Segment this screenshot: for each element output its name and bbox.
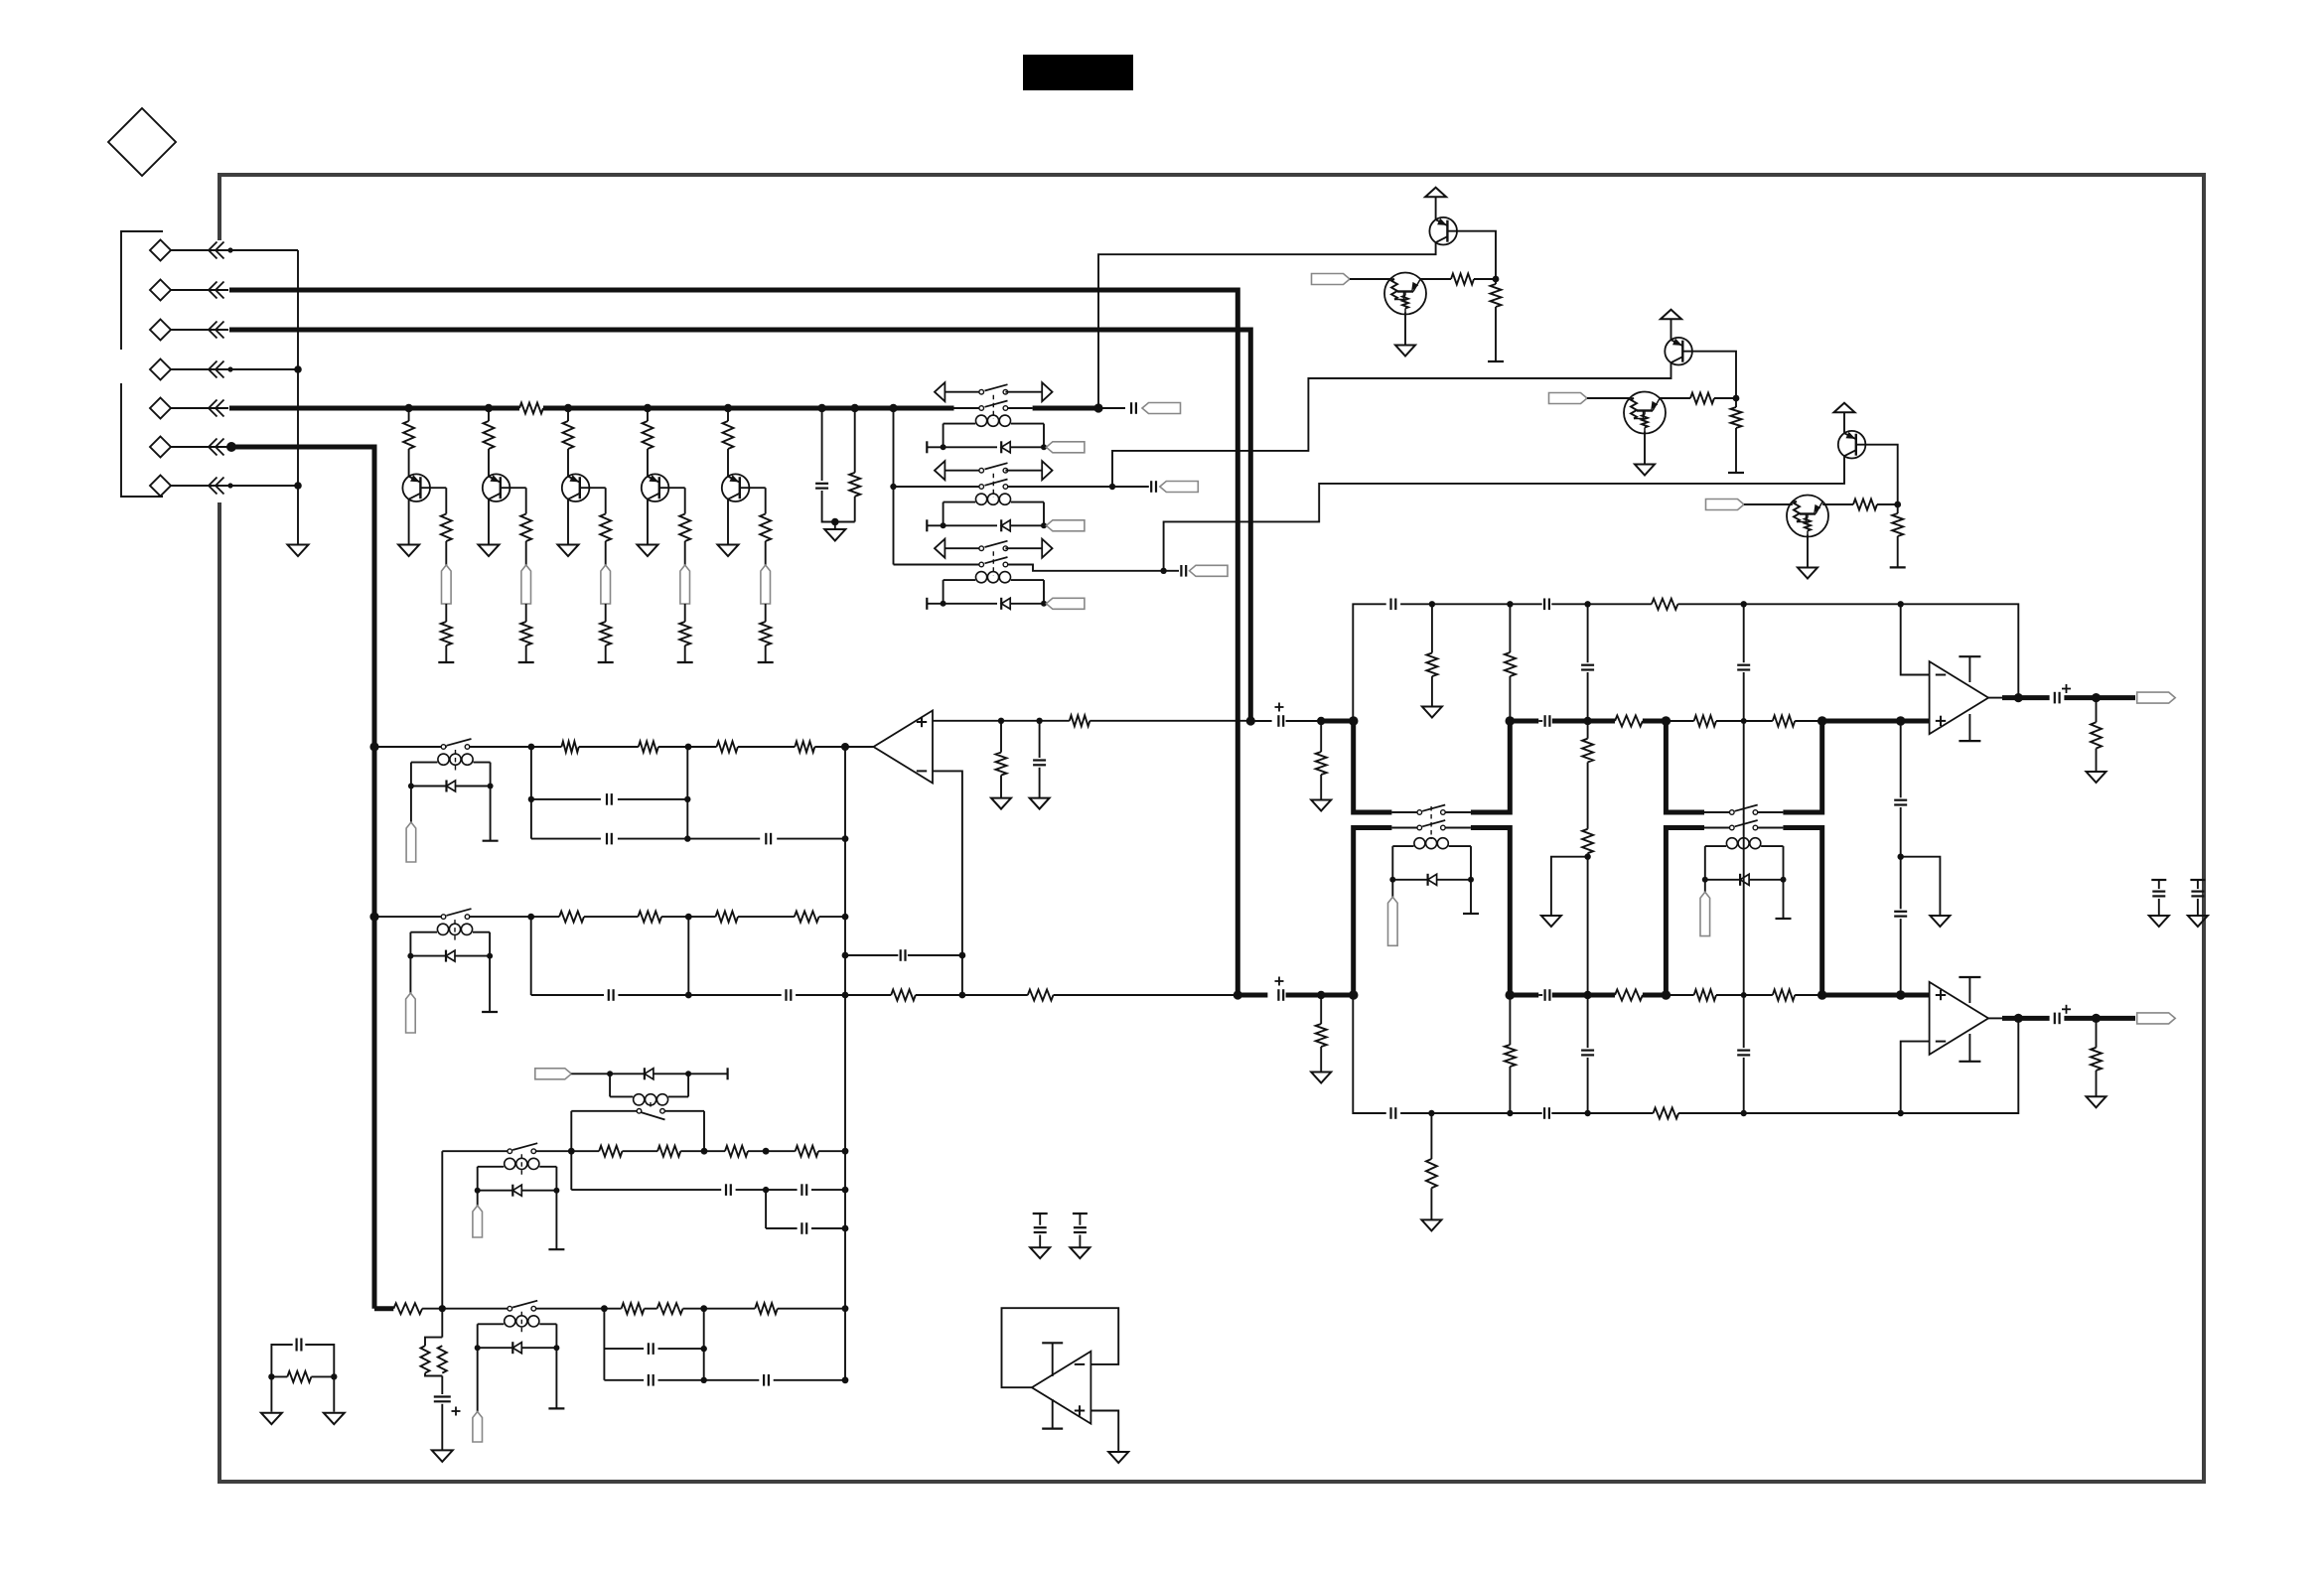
resistor R4c bbox=[679, 604, 690, 662]
wire QA base bbox=[1448, 231, 1496, 279]
wire rowL to opamp (thick) bbox=[1822, 990, 1930, 1000]
wire rowU' left corner bbox=[1353, 604, 1385, 721]
wire pin4 to node bbox=[229, 365, 302, 373]
resistor R-chain1-a bbox=[1582, 721, 1593, 763]
switch K4 lower pole bbox=[1417, 820, 1445, 830]
wire K5 ll stub bbox=[1704, 827, 1730, 829]
node bus cell2 bbox=[485, 404, 493, 412]
resistor R-U1p-in bbox=[1070, 715, 1090, 726]
diode D-B bbox=[407, 950, 493, 962]
wire Q1 emitter to ground bbox=[408, 500, 410, 545]
wire K5 ur stub bbox=[1758, 811, 1784, 813]
wire K4 lower-left (thick) bbox=[1354, 828, 1392, 996]
resistor RA1 bbox=[531, 742, 579, 753]
ground C-dm1 bbox=[1030, 1247, 1050, 1258]
wire rowL to bus2 node bbox=[1054, 994, 1238, 996]
wire DTB emitter gnd bbox=[1644, 432, 1646, 465]
connector bracket bbox=[121, 231, 163, 497]
wire row3 left bbox=[894, 564, 979, 566]
ground pin-common bbox=[288, 545, 309, 557]
resistor RA2 bbox=[579, 742, 658, 753]
transistor Q4 (PNP) bbox=[642, 474, 669, 501]
wire rowL thick to K4 bbox=[1321, 990, 1358, 1000]
wire rowL' seg4 bbox=[1588, 1112, 1654, 1114]
wire outU to tag (thick) bbox=[2064, 693, 2135, 702]
wire bus to cap bbox=[1098, 407, 1125, 409]
transistor QC (PNP) bbox=[1838, 431, 1866, 459]
wire R-U4 to chain2 bbox=[1716, 718, 1773, 724]
resistor R4a (bus to Q4) bbox=[643, 408, 654, 477]
power arrow V+ A bbox=[1425, 188, 1446, 198]
connector pin 1 diamond bbox=[150, 240, 171, 261]
flag TP3 bbox=[601, 565, 611, 604]
wire rowD node up to rowC bbox=[441, 1151, 443, 1309]
wire K5 upper-right (thick) bbox=[1783, 721, 1821, 812]
node common gnd junction bbox=[831, 518, 839, 526]
wire rowU' seg5 bbox=[1677, 601, 1747, 607]
node rowB at pin6 bus bbox=[369, 913, 378, 922]
power arrow V+ B bbox=[1661, 310, 1681, 320]
tag NET-row2 bbox=[1160, 482, 1199, 493]
wire RA2-RA3 bbox=[658, 744, 717, 751]
transistor QA (PNP) bbox=[1429, 217, 1457, 245]
resistor R-chain1-b bbox=[1582, 763, 1593, 860]
flag K5 bbox=[1700, 880, 1710, 936]
node rowU K5 left bbox=[1662, 716, 1671, 726]
terminal K1 coil- bbox=[927, 441, 997, 453]
dashed link K-D bbox=[520, 1312, 522, 1333]
aux wire right K2 bbox=[1005, 470, 1042, 472]
capacitor C-outU (+) bbox=[2055, 684, 2071, 703]
capacitor C-chain2-up bbox=[1737, 604, 1750, 721]
connector pin 5 diamond bbox=[150, 398, 171, 419]
wire rowU to chain1 bbox=[1552, 717, 1592, 725]
node rowL K5 left bbox=[1662, 990, 1671, 1000]
capacitor C-U'1 bbox=[1391, 599, 1436, 611]
ground DTB bbox=[1635, 465, 1655, 476]
terminal K-A bbox=[483, 786, 499, 841]
wire RC1 to node bbox=[1877, 501, 1901, 508]
tag NET-row1 bbox=[1142, 403, 1181, 414]
wire rowL to chain1 bbox=[1552, 991, 1592, 999]
terminal cell4 bbox=[677, 661, 693, 663]
wire U1+ to bus3 node bbox=[1089, 720, 1250, 722]
resistor R1b bbox=[441, 514, 452, 566]
wire rowU' seg4 bbox=[1588, 603, 1652, 605]
capacitor C-x1 bbox=[271, 1339, 334, 1377]
switch K-D bbox=[508, 1301, 537, 1311]
capacitor C-chain3-up bbox=[1894, 721, 1907, 860]
node bus-DTA junction bbox=[1093, 403, 1102, 412]
wire K-E right drop bbox=[703, 1111, 705, 1151]
connector pin 7 wire+chevron bbox=[171, 478, 233, 495]
node U1+ R-gnd bbox=[998, 718, 1004, 724]
capacitor C-dm2 bbox=[1073, 1214, 1088, 1247]
switch K5 lower pole bbox=[1730, 820, 1758, 830]
wire B mid vert bbox=[685, 917, 692, 998]
tag OUT-U bbox=[2137, 692, 2176, 703]
wire row1 sw-left bbox=[954, 407, 979, 409]
wire Q5 emitter to ground bbox=[727, 500, 729, 545]
terminal cell3 bbox=[598, 661, 614, 663]
resistor R3c bbox=[600, 604, 611, 662]
ground chain3 bbox=[1930, 916, 1950, 927]
capacitor C-row2 bbox=[1151, 481, 1156, 493]
wire outL to tag (thick) bbox=[2064, 1014, 2135, 1023]
wire Q5 base branch bbox=[740, 488, 766, 513]
dashed link K-C bbox=[520, 1154, 522, 1175]
wire D1 left vert bbox=[603, 1309, 605, 1380]
diode D1 (relay K1) bbox=[1001, 441, 1010, 453]
connector pin 3 wire+chevron bbox=[171, 322, 228, 339]
resistor R-L5 bbox=[1773, 990, 1822, 1001]
wire C to common bbox=[822, 491, 855, 522]
resistor R-outL bbox=[2091, 1018, 2102, 1096]
wire tag to DTB bbox=[1587, 397, 1630, 399]
resistor RD0 (from pin6 bus) bbox=[374, 1303, 442, 1314]
op-amp U1 bbox=[874, 711, 934, 784]
relay K-A coil bbox=[411, 754, 491, 786]
wire rowU' seg6 bbox=[1744, 601, 1904, 607]
terminal K-D bbox=[548, 1348, 564, 1408]
dashed link K1 bbox=[992, 395, 994, 419]
diode D-K5 bbox=[1702, 874, 1787, 886]
capacitor CD2 bbox=[604, 1374, 707, 1386]
wire rowL' left corner bbox=[1353, 995, 1385, 1113]
resistor R-U-gnd bbox=[1316, 721, 1327, 800]
node rowL K5 right bbox=[1817, 990, 1827, 1000]
wire rowA left bbox=[374, 746, 447, 748]
resistor RD1 bbox=[604, 1303, 644, 1314]
flag K-D bbox=[473, 1348, 483, 1442]
wire K-E left drop bbox=[570, 1111, 572, 1151]
wire C2 left vert bbox=[765, 1190, 767, 1228]
relay K2 coil bbox=[944, 494, 1044, 525]
resistor RB2 bbox=[584, 912, 661, 923]
connector pin 4 wire+chevron bbox=[171, 361, 233, 378]
capacitor C-dec2 bbox=[2190, 880, 2205, 916]
wire chain3 gnd branch bbox=[1901, 857, 1941, 916]
capacitor C-outL (+) bbox=[2055, 1005, 2071, 1024]
resistor R-bus on pin5 bus bbox=[519, 403, 543, 414]
wire chain2 mid bbox=[1743, 721, 1745, 995]
wire U1 output vertical bbox=[841, 743, 849, 1380]
tag IN-A bbox=[1312, 274, 1351, 285]
relay K5 coil bbox=[1705, 838, 1784, 880]
wire K5 lower-left (thick) bbox=[1666, 828, 1704, 996]
capacitor C-bus-gnd bbox=[815, 484, 828, 489]
resistor RA4 bbox=[738, 742, 845, 753]
connector pin 5 wire+chevron bbox=[171, 400, 228, 417]
ground DTA bbox=[1395, 346, 1415, 357]
wire x1 right down bbox=[333, 1376, 335, 1411]
wire rowL' seg6 bbox=[1744, 1110, 1904, 1116]
capacitor C-U'2 bbox=[1510, 599, 1590, 611]
aux contact row relay K3 right arrow bbox=[1042, 539, 1052, 558]
resistor RA3 bbox=[717, 742, 738, 753]
wire RB1 to node bbox=[1714, 395, 1739, 402]
digital transistor DTA bbox=[1384, 273, 1426, 315]
diode D-A bbox=[408, 781, 494, 792]
wire diode to tag K1 bbox=[1010, 444, 1047, 450]
relay K1 coil bbox=[944, 415, 1044, 447]
dashed link K4 bbox=[1430, 806, 1432, 839]
resistor R-bus-gnd bbox=[849, 408, 860, 522]
wire Q3 base branch bbox=[580, 488, 606, 513]
resistor R5b bbox=[760, 514, 771, 566]
wire rowB sw to node bbox=[469, 914, 534, 921]
capacitor CB1 bbox=[531, 989, 689, 1001]
capacitor C-chain3-dn bbox=[1894, 857, 1907, 995]
aux wire right K3 bbox=[1005, 547, 1042, 549]
wire K5 lr stub bbox=[1758, 827, 1784, 829]
connector pin 3 diamond bbox=[150, 320, 171, 341]
transistor QB (PNP) bbox=[1665, 338, 1692, 365]
resistor R-bias-a bbox=[421, 1338, 443, 1376]
wire rowB left bbox=[374, 916, 442, 918]
resistor R-U5 bbox=[1773, 716, 1822, 727]
wire V+ to QB bbox=[1670, 319, 1672, 340]
wire DTC emitter gnd bbox=[1807, 535, 1809, 568]
wire diode to tag K2 bbox=[1010, 522, 1047, 528]
wire Q2 emitter to ground bbox=[488, 500, 490, 545]
resistor R-U3 bbox=[1588, 716, 1667, 727]
capacitor C-dec1 bbox=[2151, 880, 2166, 916]
resistor R2c bbox=[520, 604, 531, 662]
capacitor C-chain2-dn bbox=[1737, 995, 1750, 1113]
aux contact row relay K1 left arrow bbox=[935, 382, 944, 401]
ground Q5 bbox=[718, 545, 739, 557]
switch K2 upper pole bbox=[979, 463, 1008, 473]
aux contact row relay K2 left arrow bbox=[935, 461, 944, 480]
aux wire right K1 bbox=[1005, 391, 1042, 393]
flag TP4 bbox=[680, 565, 690, 604]
capacitor CD1 bbox=[604, 1343, 707, 1355]
wire V+ to QA bbox=[1435, 197, 1437, 219]
wire row3 to cap bbox=[1164, 570, 1179, 572]
switch K-E pole bbox=[571, 1109, 704, 1120]
wire A mid vert bbox=[684, 747, 690, 842]
tag K2 coil+ bbox=[1046, 520, 1085, 531]
dashed link K3 bbox=[992, 551, 994, 575]
wire U3 output bbox=[1988, 1014, 2050, 1023]
resistor R4b bbox=[679, 514, 690, 566]
capacitor CC3 bbox=[766, 1222, 848, 1234]
wire K4 ul stub bbox=[1391, 811, 1417, 813]
wire Q4 base branch bbox=[659, 488, 685, 513]
node rowL bus2 end bbox=[1234, 990, 1242, 999]
ground bias bbox=[432, 1450, 453, 1462]
terminal cell1 bbox=[438, 661, 454, 663]
aux contact row relay K3 left arrow bbox=[935, 539, 944, 558]
resistor R3b bbox=[600, 514, 611, 566]
capacitor C-inL (+) bbox=[1275, 977, 1284, 1001]
wire Q1 base branch bbox=[421, 488, 447, 513]
resistor RC1 bbox=[1853, 500, 1877, 510]
resistor RC2 bbox=[1892, 504, 1903, 567]
resistor RB1 bbox=[531, 912, 584, 923]
resistor RB3 bbox=[716, 912, 739, 923]
capacitor C-inU (+) bbox=[1275, 703, 1284, 727]
resistor RB4 bbox=[738, 912, 848, 923]
transistor Q1 (PNP) bbox=[402, 474, 430, 501]
switch K3 main pole bbox=[979, 557, 1008, 567]
wire K4 ur stub bbox=[1445, 811, 1471, 813]
resistor RC1 bbox=[571, 1146, 622, 1157]
switch K-A bbox=[441, 739, 471, 749]
digital transistor DTB bbox=[1624, 392, 1666, 434]
node U1+ C-gnd bbox=[1036, 718, 1042, 724]
capacitor CA1 bbox=[531, 793, 687, 805]
dashed link K-B bbox=[454, 920, 456, 940]
relay K-E coil bbox=[610, 1073, 688, 1105]
resistor RB2 bbox=[1731, 398, 1742, 473]
diode D-E bbox=[610, 1068, 691, 1079]
ground C-U1p bbox=[1030, 798, 1050, 809]
ground U4 bbox=[1108, 1452, 1128, 1463]
wire pin-common vertical bbox=[297, 250, 299, 544]
ground x1-left bbox=[261, 1413, 282, 1425]
diode D-D bbox=[475, 1342, 560, 1354]
wire K4 lower-right (thick) bbox=[1471, 828, 1515, 1000]
flag K-A bbox=[406, 786, 416, 863]
resistor RC4 bbox=[766, 1146, 848, 1157]
wire K5 upper-left (thick) bbox=[1666, 721, 1704, 812]
wire rowB capnet vert bbox=[530, 917, 532, 995]
wire pin2 bus (thick) bbox=[229, 290, 1237, 995]
switch K-C bbox=[508, 1143, 537, 1153]
wire chain1 lower bbox=[1587, 857, 1589, 995]
wire Q4 emitter to ground bbox=[647, 500, 649, 545]
capacitor C-row1 bbox=[1131, 402, 1136, 414]
wire pin6 bus (thick) bbox=[229, 447, 374, 1309]
resistor R-U'2 bbox=[1505, 604, 1516, 721]
op-amp U4 power stubs bbox=[1042, 1343, 1063, 1428]
capacitor C-bias (+) bbox=[434, 1376, 461, 1451]
resistor RB1 bbox=[1690, 393, 1714, 404]
op-amp U4 bbox=[1032, 1352, 1091, 1424]
switch K5 upper pole bbox=[1730, 805, 1758, 815]
switch K-B bbox=[441, 909, 471, 919]
wire QB emitter bbox=[1112, 362, 1671, 487]
wire U4 + input bbox=[1090, 1411, 1118, 1453]
wire row1 sw-right bbox=[1008, 407, 1033, 409]
tag K-E coil bbox=[535, 1069, 572, 1079]
capacitor CC1 bbox=[571, 1184, 769, 1196]
wire pin1 to node bbox=[229, 249, 298, 251]
wire tag to diode E bbox=[571, 1071, 613, 1076]
wire row2 right bbox=[1008, 484, 1116, 490]
resistor R-L3 bbox=[1588, 990, 1667, 1001]
wire rowD sw to node bbox=[535, 1305, 608, 1312]
ground outU bbox=[2087, 772, 2106, 783]
flag TP1 bbox=[442, 565, 452, 604]
title block (redacted) bbox=[1023, 55, 1133, 90]
diode D3 (relay K3) bbox=[1001, 598, 1010, 610]
ground C-dec1 bbox=[2149, 916, 2169, 927]
aux wire left K3 bbox=[944, 547, 981, 549]
dashed link K5 bbox=[1743, 806, 1745, 839]
node rowA at pin6 bus bbox=[369, 742, 378, 751]
diode D2 (relay K2) bbox=[1001, 519, 1010, 531]
op-amp U2 bbox=[1930, 661, 1989, 734]
op-amp U3 bbox=[1930, 982, 1989, 1055]
wire Q2 base branch bbox=[501, 488, 526, 513]
wire K4 upper-right (thick) bbox=[1471, 716, 1515, 812]
wire RB2-RB3 bbox=[661, 914, 715, 921]
wire K4 lr stub bbox=[1445, 827, 1471, 829]
flag TP2 bbox=[521, 565, 531, 604]
wire bus to C-gnd bbox=[821, 408, 823, 481]
wire rowA sw to node bbox=[469, 744, 534, 751]
resistor R-L4 bbox=[1666, 990, 1716, 1001]
aux contact row relay K1 right arrow bbox=[1042, 382, 1052, 401]
wire U2 - input drop bbox=[1901, 604, 1930, 674]
dashed link K2 bbox=[992, 474, 994, 498]
ground C-dm2 bbox=[1070, 1247, 1089, 1258]
resistor R1c bbox=[441, 604, 452, 662]
wire rowD left bbox=[442, 1308, 508, 1310]
wire capU to node bbox=[1286, 717, 1326, 725]
wire rowU' seg2 bbox=[1432, 601, 1514, 607]
wire rowL' seg5 bbox=[1678, 1110, 1747, 1116]
wire C1 left vert bbox=[570, 1151, 572, 1190]
wire U2 output bbox=[1988, 693, 2050, 702]
node bus C-gnd bbox=[817, 404, 825, 412]
wire rowU to opamp (thick) bbox=[1822, 716, 1930, 726]
capacitor C-L'2 bbox=[1510, 1107, 1590, 1119]
terminal K-E bbox=[688, 1068, 728, 1079]
resistor R-bias-b bbox=[438, 1346, 447, 1372]
wire U1 - input bbox=[933, 771, 962, 995]
border frame bbox=[219, 175, 2204, 1482]
tag IN-C bbox=[1706, 500, 1745, 510]
wire rowL cap2 seg bbox=[1510, 993, 1542, 998]
resistor RA1 bbox=[1451, 274, 1474, 285]
tag IN-B bbox=[1549, 393, 1588, 404]
wire RA1 to node bbox=[1474, 276, 1499, 283]
capacitor C-dm1 bbox=[1033, 1214, 1048, 1247]
resistor R3a (bus to Q3) bbox=[563, 408, 574, 477]
resistor R-x1 bbox=[268, 1371, 337, 1382]
resistor RA2 bbox=[1491, 279, 1502, 361]
resistor R-U'-gnd bbox=[1426, 604, 1437, 706]
tag OUT-L bbox=[2137, 1013, 2176, 1024]
connector pin 6 wire+chevron bbox=[171, 439, 236, 456]
wire D mid vert bbox=[703, 1309, 705, 1380]
wire rowU to cap bbox=[1250, 720, 1271, 722]
wire rowL' right corner bbox=[1901, 1018, 2019, 1113]
capacitor CA3 bbox=[766, 833, 848, 845]
wire rowU cap2 seg bbox=[1510, 719, 1542, 724]
wire tag to DTA bbox=[1350, 278, 1390, 280]
wire DTB out bbox=[1660, 397, 1690, 399]
op-amp U2 power stubs bbox=[1959, 656, 1980, 741]
ground DTC bbox=[1798, 568, 1817, 579]
wire rowC left bbox=[442, 1150, 508, 1152]
wire QC emitter bbox=[1164, 456, 1844, 571]
resistor R-fb1 bbox=[845, 990, 965, 1001]
wire U1 output bbox=[845, 746, 874, 748]
wire Q3 emitter to ground bbox=[567, 500, 569, 545]
wire chain1 gnd branch bbox=[1551, 857, 1588, 916]
wire V+ to QC bbox=[1843, 412, 1845, 433]
ground x1-right bbox=[324, 1413, 345, 1425]
capacitor CA2 bbox=[531, 833, 760, 845]
resistor R-fb2 bbox=[962, 990, 1054, 1001]
resistor RD3 bbox=[704, 1303, 849, 1314]
dashed link K-A bbox=[455, 750, 457, 771]
